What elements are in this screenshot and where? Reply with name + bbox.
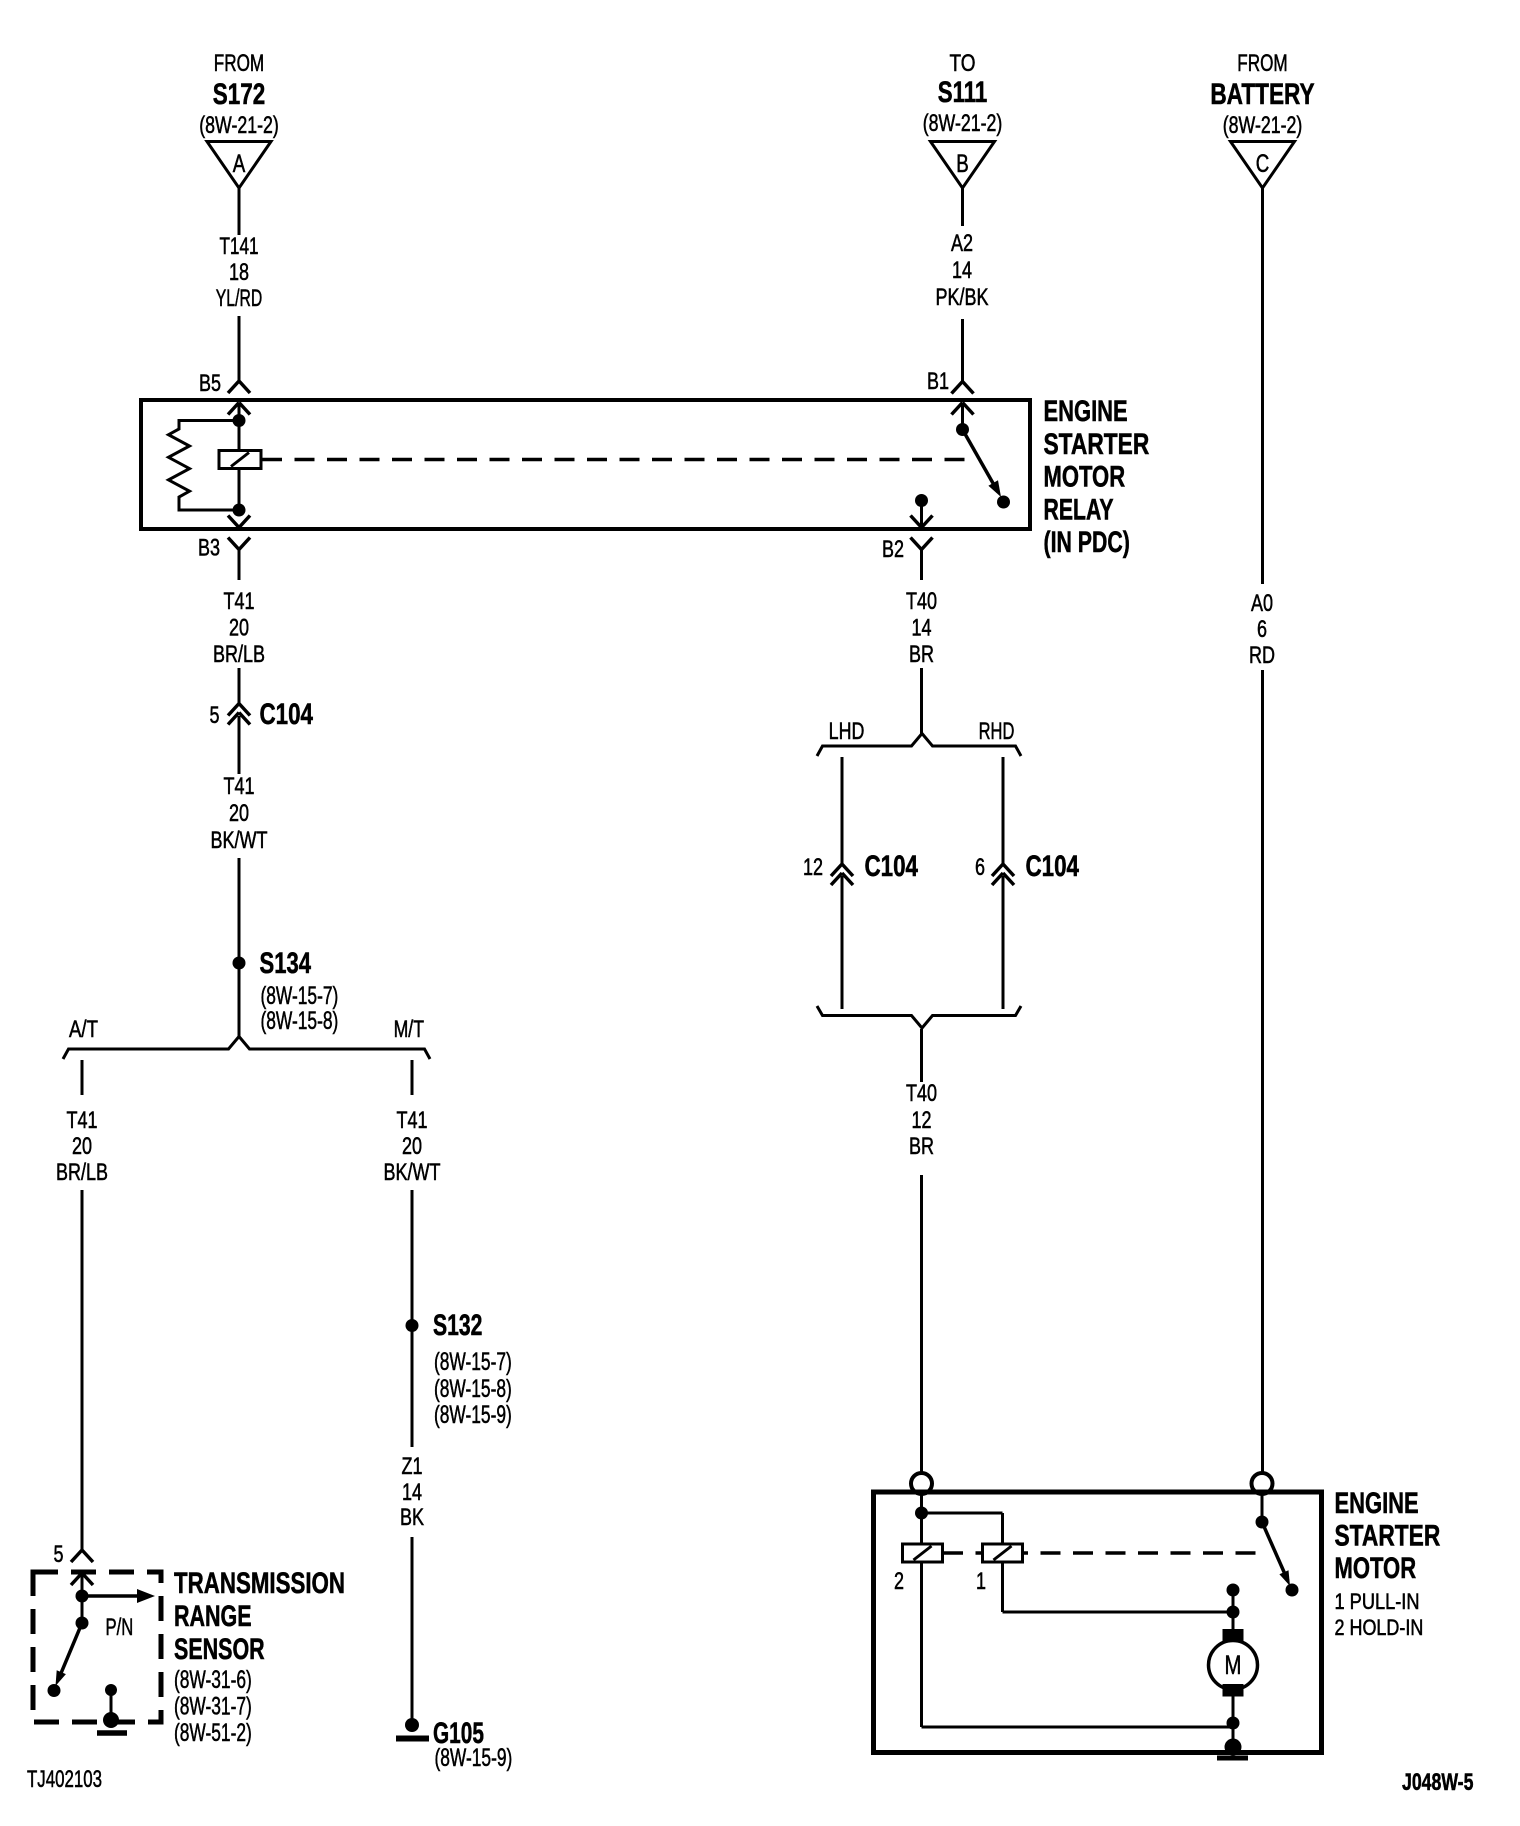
svg-text:14: 14 xyxy=(952,257,972,284)
svg-text:TO: TO xyxy=(950,50,976,77)
svg-text:C104: C104 xyxy=(260,698,314,731)
svg-text:A: A xyxy=(233,150,246,178)
svg-text:18: 18 xyxy=(229,259,249,286)
svg-text:RHD: RHD xyxy=(979,718,1015,745)
svg-text:BR: BR xyxy=(909,641,934,668)
svg-text:2 HOLD-IN: 2 HOLD-IN xyxy=(1335,1615,1424,1640)
svg-text:(8W-15-9): (8W-15-9) xyxy=(435,1744,513,1772)
svg-text:A/T: A/T xyxy=(69,1016,98,1043)
svg-text:M: M xyxy=(1225,1650,1242,1680)
svg-text:ENGINE: ENGINE xyxy=(1335,1487,1419,1520)
svg-text:S111: S111 xyxy=(938,76,988,109)
svg-text:BK: BK xyxy=(400,1504,424,1531)
svg-text:T41: T41 xyxy=(224,773,255,800)
svg-text:STARTER: STARTER xyxy=(1044,428,1150,461)
svg-text:SENSOR: SENSOR xyxy=(174,1633,265,1666)
svg-text:1 PULL-IN: 1 PULL-IN xyxy=(1335,1589,1420,1614)
svg-text:5: 5 xyxy=(210,702,220,729)
svg-text:BR: BR xyxy=(909,1133,934,1160)
svg-text:T40: T40 xyxy=(906,588,937,615)
svg-text:20: 20 xyxy=(72,1133,92,1160)
svg-text:RD: RD xyxy=(1249,642,1275,669)
svg-text:6: 6 xyxy=(1257,616,1267,643)
svg-text:2: 2 xyxy=(894,1568,904,1595)
svg-text:C: C xyxy=(1256,150,1270,178)
svg-text:(8W-21-2): (8W-21-2) xyxy=(1223,112,1303,139)
svg-text:(8W-15-7): (8W-15-7) xyxy=(434,1348,512,1376)
svg-text:(8W-31-6): (8W-31-6) xyxy=(174,1666,252,1694)
svg-text:(8W-21-2): (8W-21-2) xyxy=(923,110,1003,137)
svg-text:BR/LB: BR/LB xyxy=(56,1159,108,1186)
svg-text:B3: B3 xyxy=(198,535,220,562)
svg-text:(8W-15-8): (8W-15-8) xyxy=(434,1375,512,1403)
svg-text:ENGINE: ENGINE xyxy=(1044,395,1128,428)
svg-text:B2: B2 xyxy=(882,536,904,563)
svg-text:(8W-31-7): (8W-31-7) xyxy=(174,1693,252,1721)
svg-text:12: 12 xyxy=(912,1107,932,1134)
svg-text:5: 5 xyxy=(54,1541,64,1568)
svg-text:20: 20 xyxy=(402,1133,422,1160)
svg-text:S134: S134 xyxy=(260,947,312,980)
svg-text:B: B xyxy=(956,150,969,178)
svg-text:S172: S172 xyxy=(213,78,265,111)
svg-text:B1: B1 xyxy=(927,368,949,395)
svg-text:A0: A0 xyxy=(1251,590,1273,617)
svg-text:LHD: LHD xyxy=(829,718,865,745)
svg-text:P/N: P/N xyxy=(106,1614,134,1641)
svg-text:(IN PDC): (IN PDC) xyxy=(1044,526,1130,559)
svg-text:12: 12 xyxy=(803,854,823,881)
svg-text:MOTOR: MOTOR xyxy=(1044,461,1126,494)
svg-text:T40: T40 xyxy=(906,1080,937,1107)
svg-text:20: 20 xyxy=(229,615,249,642)
svg-text:RANGE: RANGE xyxy=(174,1600,252,1633)
svg-text:(8W-51-2): (8W-51-2) xyxy=(174,1719,252,1747)
svg-text:20: 20 xyxy=(229,800,249,827)
svg-text:PK/BK: PK/BK xyxy=(936,284,989,311)
svg-text:BATTERY: BATTERY xyxy=(1210,78,1314,111)
svg-text:T41: T41 xyxy=(67,1107,98,1134)
svg-text:MOTOR: MOTOR xyxy=(1335,1552,1417,1585)
svg-text:BK/WT: BK/WT xyxy=(384,1159,441,1186)
svg-text:BR/LB: BR/LB xyxy=(213,641,265,668)
svg-text:T141: T141 xyxy=(219,233,258,260)
svg-text:(8W-21-2): (8W-21-2) xyxy=(199,112,279,139)
svg-text:RELAY: RELAY xyxy=(1044,493,1114,526)
svg-text:TRANSMISSION: TRANSMISSION xyxy=(174,1567,345,1600)
svg-text:14: 14 xyxy=(402,1479,422,1506)
svg-text:J048W-5: J048W-5 xyxy=(1402,1769,1473,1796)
svg-text:S132: S132 xyxy=(433,1309,482,1342)
svg-text:C104: C104 xyxy=(865,850,919,883)
svg-text:STARTER: STARTER xyxy=(1335,1520,1441,1553)
svg-text:YL/RD: YL/RD xyxy=(216,285,262,312)
svg-text:C104: C104 xyxy=(1026,850,1080,883)
svg-text:1: 1 xyxy=(976,1568,986,1595)
svg-text:T41: T41 xyxy=(224,588,255,615)
svg-text:T41: T41 xyxy=(397,1107,428,1134)
svg-text:(8W-15-8): (8W-15-8) xyxy=(261,1007,339,1035)
svg-text:FROM: FROM xyxy=(214,50,264,77)
svg-text:B5: B5 xyxy=(199,370,221,397)
svg-text:6: 6 xyxy=(975,854,985,881)
svg-text:A2: A2 xyxy=(951,230,973,257)
svg-text:(8W-15-9): (8W-15-9) xyxy=(434,1401,512,1429)
svg-text:TJ402103: TJ402103 xyxy=(27,1766,102,1793)
svg-text:FROM: FROM xyxy=(1237,50,1287,77)
svg-text:(8W-15-7): (8W-15-7) xyxy=(261,982,339,1010)
svg-text:M/T: M/T xyxy=(394,1016,425,1043)
svg-text:Z1: Z1 xyxy=(402,1453,423,1480)
svg-text:14: 14 xyxy=(912,615,932,642)
svg-text:BK/WT: BK/WT xyxy=(211,827,268,854)
